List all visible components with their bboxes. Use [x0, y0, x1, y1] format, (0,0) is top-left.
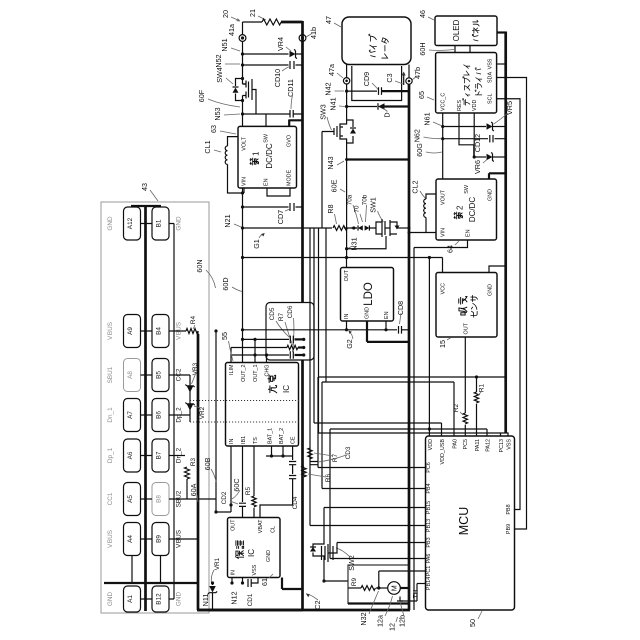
svg-text:CD2: CD2	[221, 491, 228, 504]
wire PA6 row	[330, 558, 426, 560]
svg-text:G1: G1	[252, 239, 261, 249]
svg-text:VR1: VR1	[214, 557, 221, 570]
wire PB15 row	[324, 507, 426, 509]
resistor R2	[453, 403, 467, 436]
wire VSS stub	[506, 433, 508, 436]
wire N52 row	[243, 64, 303, 66]
wire battery left rail	[242, 22, 244, 126]
svg-text:VR6: VR6	[473, 160, 482, 174]
label N41	[329, 97, 346, 110]
wire PB13 row	[310, 525, 426, 527]
resistor R5	[245, 486, 256, 517]
wire CC2 row3 out	[169, 374, 190, 376]
svg-text:B12: B12	[156, 593, 163, 605]
svg-text:SW: SW	[464, 184, 470, 194]
label CD6	[287, 305, 294, 352]
capacitor CD4a	[289, 462, 296, 465]
svg-text:BAT_1: BAT_1	[268, 428, 274, 444]
svg-text:A4: A4	[127, 535, 134, 543]
svg-text:CD7: CD7	[276, 210, 285, 224]
label 20 battery	[221, 10, 240, 21]
svg-text:GND: GND	[365, 307, 371, 319]
label N53	[213, 107, 240, 120]
wire sensor VCC stub	[442, 258, 444, 273]
svg-text:N12: N12	[230, 591, 239, 604]
node SW1 left	[351, 226, 357, 229]
protection IC U61 box	[228, 518, 281, 578]
terminal 41a	[227, 24, 246, 41]
wire protection IN down	[230, 578, 233, 585]
svg-text:MODE: MODE	[287, 169, 293, 186]
inductor CL1	[203, 137, 243, 193]
label 64	[446, 241, 460, 253]
svg-text:PB4: PB4	[426, 483, 432, 493]
svg-text:GND: GND	[266, 550, 272, 562]
wire VBUS vertical link	[197, 331, 199, 334]
svg-text:R1: R1	[479, 383, 486, 392]
vib rail bold	[408, 84, 411, 610]
transistor SW1	[369, 197, 411, 237]
svg-text:PB15: PB15	[426, 501, 432, 514]
svg-text:PC5: PC5	[463, 439, 469, 450]
wire sensor OUT run	[464, 337, 466, 413]
wire R7 row	[231, 346, 305, 349]
wire N51 row	[243, 53, 303, 55]
svg-text:1: 1	[252, 151, 261, 156]
svg-text:DC/DC: DC/DC	[265, 143, 274, 169]
connector GND bus top tee	[131, 205, 161, 207]
wire SW1 source link	[347, 236, 386, 249]
bold OLED GND link	[497, 31, 506, 33]
svg-text:IB1: IB1	[241, 436, 247, 444]
wire EN run down	[413, 248, 415, 611]
label N62	[413, 129, 442, 142]
svg-text:R6: R6	[325, 473, 332, 482]
svg-text:A7: A7	[127, 411, 134, 419]
label 60N	[195, 259, 216, 288]
svg-text:A12: A12	[127, 217, 134, 229]
svg-text:OUT: OUT	[344, 269, 350, 281]
svg-text:SDA: SDA	[488, 72, 494, 83]
capacitor CD7	[241, 203, 303, 224]
svg-text:GND: GND	[488, 189, 494, 201]
terminal 47a	[327, 64, 350, 84]
svg-text:CD10: CD10	[273, 69, 282, 87]
svg-text:N62: N62	[413, 129, 422, 142]
capacitor CD8	[396, 301, 409, 334]
wire VDD_USB stub	[441, 423, 443, 436]
svg-text:CD8: CD8	[396, 301, 405, 315]
svg-text:CL1: CL1	[203, 140, 212, 153]
svg-text:G2: G2	[345, 339, 354, 349]
label 55	[220, 332, 233, 361]
svg-text:V BUS: V BUS	[107, 530, 114, 548]
wire PB3 row	[337, 542, 426, 544]
wire VSS GND bold	[282, 578, 303, 590]
svg-text:PC6: PC6	[426, 462, 432, 473]
label 46	[418, 10, 434, 20]
label N61	[423, 112, 442, 125]
svg-text:CL2: CL2	[411, 180, 420, 193]
wire VDD run	[428, 258, 431, 437]
wire EN MODE link	[267, 188, 290, 196]
node N31	[345, 237, 359, 250]
diode 70a	[347, 194, 363, 230]
pin A8	[124, 359, 141, 392]
bus vertical x322	[321, 382, 323, 489]
wire 60N bus vertical	[214, 329, 217, 513]
label 70	[354, 205, 363, 222]
svg-text:CD3: CD3	[345, 446, 352, 459]
wire GND row links	[141, 224, 153, 600]
inductor CL2	[411, 180, 437, 232]
svg-text:B5: B5	[156, 371, 163, 379]
svg-text:VOUT: VOUT	[441, 189, 447, 205]
node motor junction	[376, 586, 388, 589]
resistor R8	[326, 204, 347, 230]
svg-text:PA0: PA0	[453, 439, 459, 449]
label 63	[209, 125, 236, 134]
wire row y382	[322, 381, 454, 383]
pin A5	[124, 483, 141, 516]
svg-text:43: 43	[140, 183, 149, 191]
capacitor CD3	[311, 446, 353, 465]
svg-text:12: 12	[388, 623, 397, 631]
svg-text:46: 46	[418, 10, 427, 18]
svg-text:OLED: OLED	[452, 19, 461, 41]
svg-text:PB13: PB13	[426, 519, 432, 532]
svg-text:A5: A5	[127, 495, 134, 503]
svg-text:EN: EN	[384, 311, 390, 319]
svg-text:60G: 60G	[415, 143, 424, 157]
wire row pair links	[141, 331, 153, 539]
wire VCC_C down	[441, 113, 444, 179]
pin B7	[152, 439, 169, 472]
transistor SW4	[215, 67, 256, 114]
svg-text:SBU1: SBU1	[107, 366, 114, 383]
wire SW3 source	[346, 143, 348, 258]
label N51	[220, 38, 240, 51]
pin A6	[124, 439, 141, 472]
zener VR6	[473, 152, 506, 174]
resistor R4	[186, 315, 198, 333]
svg-text:GND: GND	[176, 592, 183, 607]
svg-text:15: 15	[438, 340, 447, 348]
svg-text:R8: R8	[326, 204, 335, 213]
capacitor CD11	[286, 79, 295, 117]
resistor R1	[474, 383, 485, 436]
svg-text:B9: B9	[156, 535, 163, 543]
svg-text:41a: 41a	[227, 24, 236, 36]
svg-text:IC: IC	[247, 549, 256, 557]
vibrator 47 box	[342, 17, 411, 65]
wire LDO IN EN row	[241, 321, 397, 331]
svg-text:LDO: LDO	[363, 282, 375, 306]
label N42	[324, 82, 345, 95]
svg-text:GVO: GVO	[287, 135, 293, 147]
svg-text:R4: R4	[190, 315, 197, 324]
connector GND bus bold	[144, 206, 147, 611]
wire SW2 source	[322, 562, 348, 583]
pin A9	[124, 315, 141, 348]
dashed Dp line	[190, 400, 303, 402]
label 60C	[232, 478, 241, 499]
svg-text:OUT: OUT	[463, 322, 469, 334]
wire Dn rows out	[169, 455, 185, 457]
svg-text:PB3: PB3	[426, 537, 432, 547]
svg-text:VOLT: VOLT	[242, 136, 248, 150]
svg-text:41b: 41b	[309, 27, 318, 39]
svg-text:N21: N21	[223, 214, 232, 227]
wire LDO OUT stub	[346, 258, 348, 268]
terminal 41b	[299, 27, 318, 41]
svg-text:RES: RES	[457, 100, 463, 111]
wire PC1 row	[379, 570, 426, 572]
svg-text:60H: 60H	[418, 42, 427, 55]
svg-text:OUT_1: OUT_1	[253, 364, 259, 381]
pin B6	[152, 399, 169, 432]
module bottom bold	[348, 602, 409, 604]
svg-text:N41: N41	[329, 97, 338, 110]
svg-text:PA11: PA11	[475, 439, 481, 451]
svg-text:IN: IN	[229, 439, 235, 444]
wire ILIM stub	[230, 348, 232, 363]
wire row y433	[319, 432, 506, 434]
svg-text:VCC_C: VCC_C	[441, 93, 447, 111]
resistor R7 snubber	[287, 345, 298, 349]
snubber box CD5 R7 CD6	[266, 303, 314, 361]
svg-text:N61: N61	[423, 112, 432, 125]
resistor R9	[351, 577, 375, 590]
svg-text:SCL: SCL	[488, 94, 494, 105]
label 60D	[221, 277, 242, 291]
svg-text:VR2: VR2	[199, 406, 206, 419]
wire U64 EN stub	[414, 240, 468, 248]
zener VR2	[185, 403, 206, 420]
svg-text:OUT_2: OUT_2	[241, 364, 247, 381]
svg-text:R5: R5	[245, 486, 252, 495]
wire row y377	[318, 376, 506, 378]
resistor R3	[185, 457, 198, 499]
label 60H	[418, 42, 454, 55]
wire LDO GND bold	[367, 321, 409, 342]
svg-text:VIN: VIN	[242, 177, 248, 186]
svg-text:VR3: VR3	[192, 362, 199, 375]
svg-text:VIN: VIN	[441, 228, 447, 237]
svg-text:70b: 70b	[362, 194, 369, 205]
svg-text:N52: N52	[214, 54, 223, 67]
wire N53 row	[243, 113, 303, 115]
current arrow G1	[252, 233, 265, 249]
node N53 junction	[241, 112, 244, 115]
wire VIN stub	[243, 188, 245, 193]
svg-text:N42: N42	[324, 82, 333, 95]
node VIN junction	[241, 191, 244, 194]
svg-text:64: 64	[446, 245, 455, 253]
label 65	[417, 91, 434, 100]
svg-text:20: 20	[221, 10, 230, 18]
svg-text:SW3: SW3	[319, 104, 328, 120]
bus vertical x330	[329, 429, 331, 559]
zener VR4	[276, 37, 297, 59]
bus vertical x318	[317, 228, 320, 468]
svg-text:R3: R3	[190, 457, 197, 466]
svg-text:VR4: VR4	[276, 37, 285, 51]
label 60F	[197, 89, 240, 107]
capacitor CD5	[290, 336, 293, 344]
svg-text:CL: CL	[271, 526, 277, 533]
wire SDA run	[497, 78, 527, 530]
svg-text:M: M	[389, 585, 398, 591]
wire vibrator right lead	[408, 65, 410, 78]
svg-text:63: 63	[209, 125, 218, 133]
wire VBUS row7 stubs down	[132, 556, 161, 584]
svg-text:70a: 70a	[347, 194, 354, 205]
svg-text:VSS: VSS	[488, 58, 494, 69]
current arrow C2	[306, 593, 322, 609]
node N51 junction	[241, 52, 244, 55]
resistor R6	[302, 466, 332, 482]
zener VR3	[185, 362, 199, 392]
wire CD6 row	[231, 353, 305, 356]
wire U64 VIN link	[408, 231, 427, 234]
wire SCL run	[497, 99, 520, 510]
svg-text:Dn_1: Dn_1	[107, 407, 114, 423]
svg-text:N32: N32	[359, 612, 368, 625]
svg-text:VSS: VSS	[252, 564, 258, 575]
svg-text:GND: GND	[488, 284, 494, 296]
svg-text:A1: A1	[127, 595, 134, 603]
svg-text:GND: GND	[107, 592, 114, 607]
label 60B	[203, 457, 216, 482]
MCU 50 box	[426, 436, 515, 610]
wire PA12 stub	[486, 429, 488, 436]
wire loop cap	[352, 66, 402, 101]
label CD5	[269, 307, 289, 337]
svg-text:A9: A9	[127, 327, 134, 335]
label 50	[468, 611, 482, 627]
terminal 47b	[406, 67, 422, 84]
wire CHG stub	[266, 355, 268, 363]
svg-text:47a: 47a	[327, 64, 336, 76]
svg-text:60N: 60N	[195, 259, 204, 272]
wire N21 row	[243, 227, 358, 229]
svg-text:61: 61	[260, 578, 269, 586]
vibration module 12 box	[348, 565, 409, 604]
label 60A	[189, 483, 198, 502]
svg-text:C3: C3	[385, 73, 394, 82]
GND rail right bold	[504, 32, 507, 434]
svg-text:VR5: VR5	[505, 101, 514, 115]
pin A12	[124, 207, 141, 240]
svg-text:PA12: PA12	[486, 439, 492, 452]
resistor R7b	[308, 448, 339, 462]
svg-text:60E: 60E	[330, 179, 339, 192]
diode D	[345, 103, 409, 117]
svg-text:CC1: CC1	[107, 492, 114, 505]
svg-text:ILIM: ILIM	[229, 364, 235, 375]
pin B5	[152, 359, 169, 392]
wire PC1 vertical	[378, 571, 380, 588]
svg-text:SW: SW	[264, 133, 270, 143]
wire CD5 row	[241, 338, 305, 341]
U61 name 保護 IC	[235, 541, 256, 559]
wire PC13 stub	[500, 433, 502, 436]
svg-text:2: 2	[456, 205, 465, 210]
svg-text:B6: B6	[156, 411, 163, 419]
capacitor CD1	[247, 578, 258, 607]
svg-text:BAT_2: BAT_2	[279, 428, 285, 444]
wire row y423	[314, 422, 442, 424]
bold N43 link	[347, 158, 409, 160]
svg-text:CD11: CD11	[286, 79, 295, 97]
motor 12a	[388, 582, 401, 595]
svg-text:N11: N11	[201, 594, 210, 607]
U63 name 第1 DC/DC	[250, 143, 274, 169]
wire 3V3 row	[241, 256, 443, 259]
pin B1	[152, 207, 169, 240]
svg-text:47: 47	[324, 16, 333, 24]
svg-text:VBAT: VBAT	[258, 519, 264, 533]
svg-text:B4: B4	[156, 327, 163, 335]
svg-text:GND: GND	[176, 216, 183, 231]
wire CC1 row6 out	[169, 498, 216, 500]
svg-text:CHG: CHG	[265, 365, 271, 377]
label N12	[230, 581, 245, 604]
label 61	[260, 574, 273, 586]
pin B12	[152, 586, 169, 612]
charge IC U55 box	[226, 363, 299, 447]
wire bold top to VSYS rail	[281, 21, 303, 24]
svg-text:MCU: MCU	[457, 507, 471, 535]
wire PB4 row	[322, 488, 426, 490]
dashed Dn line	[190, 421, 303, 423]
wire PC6 row	[318, 467, 426, 469]
wire vibrator left lead	[346, 65, 348, 121]
svg-text:21: 21	[248, 9, 257, 17]
pin A7	[124, 399, 141, 432]
svg-text:65: 65	[417, 91, 426, 99]
label 12	[388, 617, 398, 631]
svg-text:47b: 47b	[413, 67, 422, 79]
svg-text:A8: A8	[127, 371, 134, 379]
svg-text:OUT: OUT	[231, 519, 237, 531]
svg-text:Dp_1: Dp_1	[107, 447, 114, 463]
label 47	[324, 16, 341, 27]
wire SW2 drain	[323, 508, 325, 539]
wire charger TS down	[253, 446, 255, 496]
capacitor CD4b	[260, 465, 299, 518]
svg-text:VDD_USB: VDD_USB	[440, 439, 446, 465]
zener VR5	[443, 101, 514, 131]
svg-text:B1: B1	[156, 219, 163, 227]
svg-text:N43: N43	[326, 156, 335, 169]
svg-text:60F: 60F	[197, 89, 206, 102]
wire charger IN down	[216, 446, 233, 512]
svg-text:TS: TS	[253, 437, 259, 444]
wire B-side GND link	[169, 224, 174, 600]
capacitor CD12	[443, 134, 506, 152]
thermistor 12b	[397, 584, 420, 602]
pin A1	[124, 586, 141, 612]
svg-text:IN: IN	[231, 570, 237, 575]
capacitor CD10	[273, 61, 294, 87]
label N32	[359, 591, 379, 626]
svg-text:EN: EN	[264, 178, 270, 186]
svg-text:A6: A6	[127, 451, 134, 459]
wire battery top	[243, 21, 263, 23]
wire BAT junction row	[266, 446, 293, 458]
